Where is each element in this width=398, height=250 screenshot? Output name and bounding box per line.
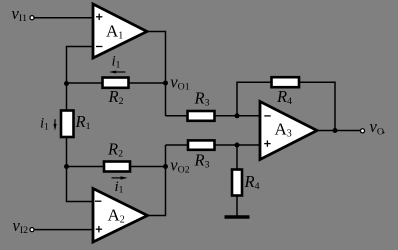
resistor R3 bottom <box>188 140 215 149</box>
node vO1 junction <box>163 81 168 86</box>
terminal vI1 <box>30 16 34 20</box>
terminal vO <box>360 129 364 133</box>
period after vO <box>383 132 385 134</box>
label i1 bottom with right arrow <box>112 176 128 195</box>
op-amp A2 <box>93 189 148 243</box>
resistor R1 <box>61 111 74 138</box>
node A3 plus junction <box>235 143 240 148</box>
node output junction <box>333 128 338 133</box>
wire A3 output to vO terminal <box>316 130 361 132</box>
resistor R2 top <box>103 78 129 88</box>
wire vO1 row to A3 - input through R3 <box>166 115 261 117</box>
wire A1 output down to R3 row <box>146 32 166 116</box>
node vO2 junction <box>163 164 168 169</box>
resistor R2 bottom <box>104 162 130 172</box>
wire feedback through R4 to output <box>237 82 335 130</box>
resistor R4 bottom <box>232 170 242 196</box>
wire node B to node vO2 through R2 <box>67 166 166 168</box>
terminal vI2 <box>30 228 34 232</box>
wire vI2 to A2 + input <box>34 229 93 231</box>
wire vO2 row to A3 + input through R3 <box>166 144 261 146</box>
op-amp A3 <box>260 102 317 160</box>
wire node A to node B through R1 <box>66 84 68 167</box>
wire vI1 to A1 + input <box>34 17 93 19</box>
resistor R3 top <box>188 111 215 121</box>
node A junction <box>64 81 69 86</box>
wire node B to A2 - input <box>67 167 94 202</box>
wire node A to node vO1 through R2 <box>67 82 166 84</box>
op-amp A1 <box>93 4 147 58</box>
node A3 minus junction <box>235 113 240 118</box>
ground <box>225 215 250 218</box>
wire A1 - input to node A <box>67 47 94 84</box>
resistor R4 feedback <box>272 77 300 87</box>
wire A2 output up through vO2 to R3 row <box>147 145 166 216</box>
label i1 left with down arrow <box>40 116 57 133</box>
label i1 top with left arrow <box>109 54 126 74</box>
node B junction <box>64 164 69 169</box>
wire A3 + node down to ground through R4 <box>236 145 238 216</box>
